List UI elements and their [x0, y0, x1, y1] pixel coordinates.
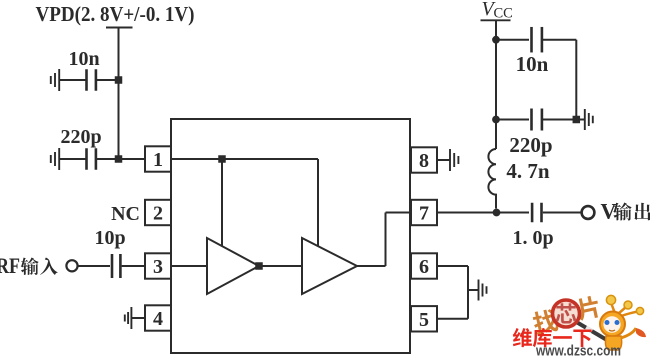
svg-text:3: 3 — [153, 256, 163, 278]
svg-text:1. 0p: 1. 0p — [512, 227, 553, 249]
svg-text:1: 1 — [153, 149, 163, 171]
svg-text:2: 2 — [153, 203, 163, 225]
svg-text:10p: 10p — [94, 227, 125, 249]
svg-text:10n: 10n — [516, 52, 549, 76]
svg-text:www.dzsc.com: www.dzsc.com — [535, 342, 621, 356]
svg-text:5: 5 — [419, 309, 429, 331]
svg-text:10n: 10n — [68, 48, 99, 70]
svg-text:NC: NC — [111, 203, 140, 225]
svg-text:6: 6 — [419, 256, 429, 278]
svg-text:RF: RF — [0, 253, 20, 278]
svg-text:220p: 220p — [509, 133, 552, 157]
svg-text:220p: 220p — [60, 126, 101, 148]
svg-text:CC: CC — [494, 6, 513, 22]
svg-text:4: 4 — [153, 308, 163, 330]
svg-text:7: 7 — [419, 203, 429, 225]
svg-text:8: 8 — [419, 150, 429, 172]
svg-text:4. 7n: 4. 7n — [506, 159, 550, 183]
svg-text:VPD(2. 8V+/-0. 1V): VPD(2. 8V+/-0. 1V) — [36, 2, 195, 26]
